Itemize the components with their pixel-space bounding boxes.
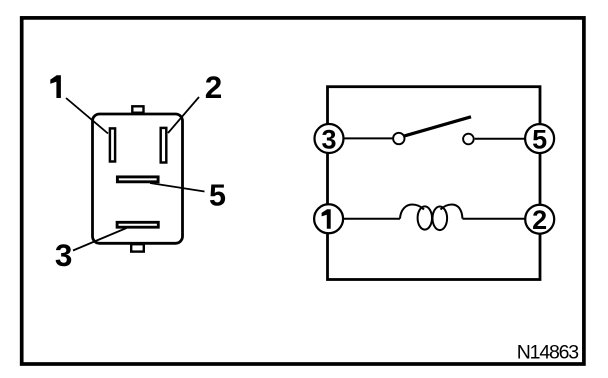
relay connector body [93,114,183,243]
terminal 3 [315,124,344,154]
top mounting tab [132,106,143,112]
leader line for pin 2 [168,97,199,133]
terminal 5 [525,124,554,154]
switch contact (left) [393,133,404,144]
svg-text:2: 2 [205,69,223,105]
svg-text:N14863: N14863 [517,341,578,363]
pin 3 terminal slot [117,222,158,227]
svg-text:3: 3 [55,237,73,273]
terminal 2 [525,205,554,235]
svg-text:2: 2 [532,205,547,235]
leader line for pin 1 [66,98,108,134]
pin 1 terminal slot [110,128,115,161]
pin label 1 [50,75,61,98]
bottom mounting tab [131,244,144,251]
svg-text:5: 5 [209,179,226,213]
wire: terminal 1 to coil [343,218,400,220]
switch blade [404,117,472,136]
terminal 1 [314,204,343,233]
wire: terminal 3 to switch contact [343,137,392,139]
svg-text:3: 3 [321,124,336,154]
wire: switch contact to terminal 5 [475,138,525,140]
relay coil [400,205,463,231]
leader line for pin 5 [150,183,205,192]
wire: outer loop connecting terminals 3-5-2-1 [328,87,541,280]
leader line for pin 3 [73,228,127,251]
switch contact (right) [463,134,474,145]
pin 2 terminal slot [161,128,167,163]
pin 5 terminal slot [117,177,158,182]
svg-text:5: 5 [532,125,547,155]
wire: coil to terminal 2 [463,218,526,220]
